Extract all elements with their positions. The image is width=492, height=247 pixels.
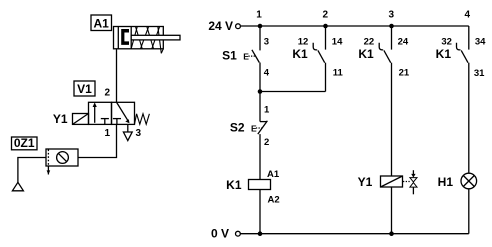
svg-text:K1: K1: [436, 47, 452, 61]
svg-text:2: 2: [323, 9, 329, 20]
svg-text:3: 3: [136, 128, 142, 139]
svg-text:E: E: [243, 52, 249, 62]
svg-text:A1: A1: [267, 169, 280, 180]
svg-text:1: 1: [264, 104, 270, 115]
svg-text:Y1: Y1: [358, 175, 373, 189]
svg-text:E: E: [251, 123, 257, 133]
svg-text:S1: S1: [222, 49, 237, 63]
svg-text:A2: A2: [268, 195, 280, 206]
svg-text:24 V: 24 V: [208, 19, 233, 33]
svg-text:K1: K1: [292, 47, 308, 61]
svg-text:A1: A1: [94, 17, 110, 31]
svg-text:4: 4: [264, 68, 270, 79]
svg-text:2: 2: [264, 137, 269, 148]
svg-text:0 V: 0 V: [211, 227, 229, 241]
svg-text:21: 21: [399, 68, 410, 79]
svg-text:22: 22: [364, 37, 375, 48]
svg-text:34: 34: [475, 37, 486, 48]
svg-text:Y1: Y1: [53, 112, 68, 126]
svg-text:1: 1: [104, 128, 110, 139]
svg-text:K1: K1: [226, 178, 242, 192]
svg-text:3: 3: [389, 9, 395, 20]
svg-text:12: 12: [298, 37, 309, 48]
svg-text:0Z1: 0Z1: [14, 136, 35, 150]
svg-text:32: 32: [441, 37, 452, 48]
svg-text:2: 2: [104, 88, 110, 99]
svg-text:4: 4: [465, 9, 471, 20]
svg-text:14: 14: [332, 37, 343, 48]
svg-text:3: 3: [264, 37, 269, 48]
svg-text:H1: H1: [438, 175, 454, 189]
svg-text:11: 11: [333, 68, 344, 79]
svg-text:31: 31: [474, 68, 485, 79]
svg-text:K1: K1: [358, 47, 374, 61]
svg-text:24: 24: [398, 37, 409, 48]
svg-text:S2: S2: [230, 120, 245, 134]
svg-text:1: 1: [256, 9, 262, 20]
svg-text:V1: V1: [77, 82, 92, 96]
